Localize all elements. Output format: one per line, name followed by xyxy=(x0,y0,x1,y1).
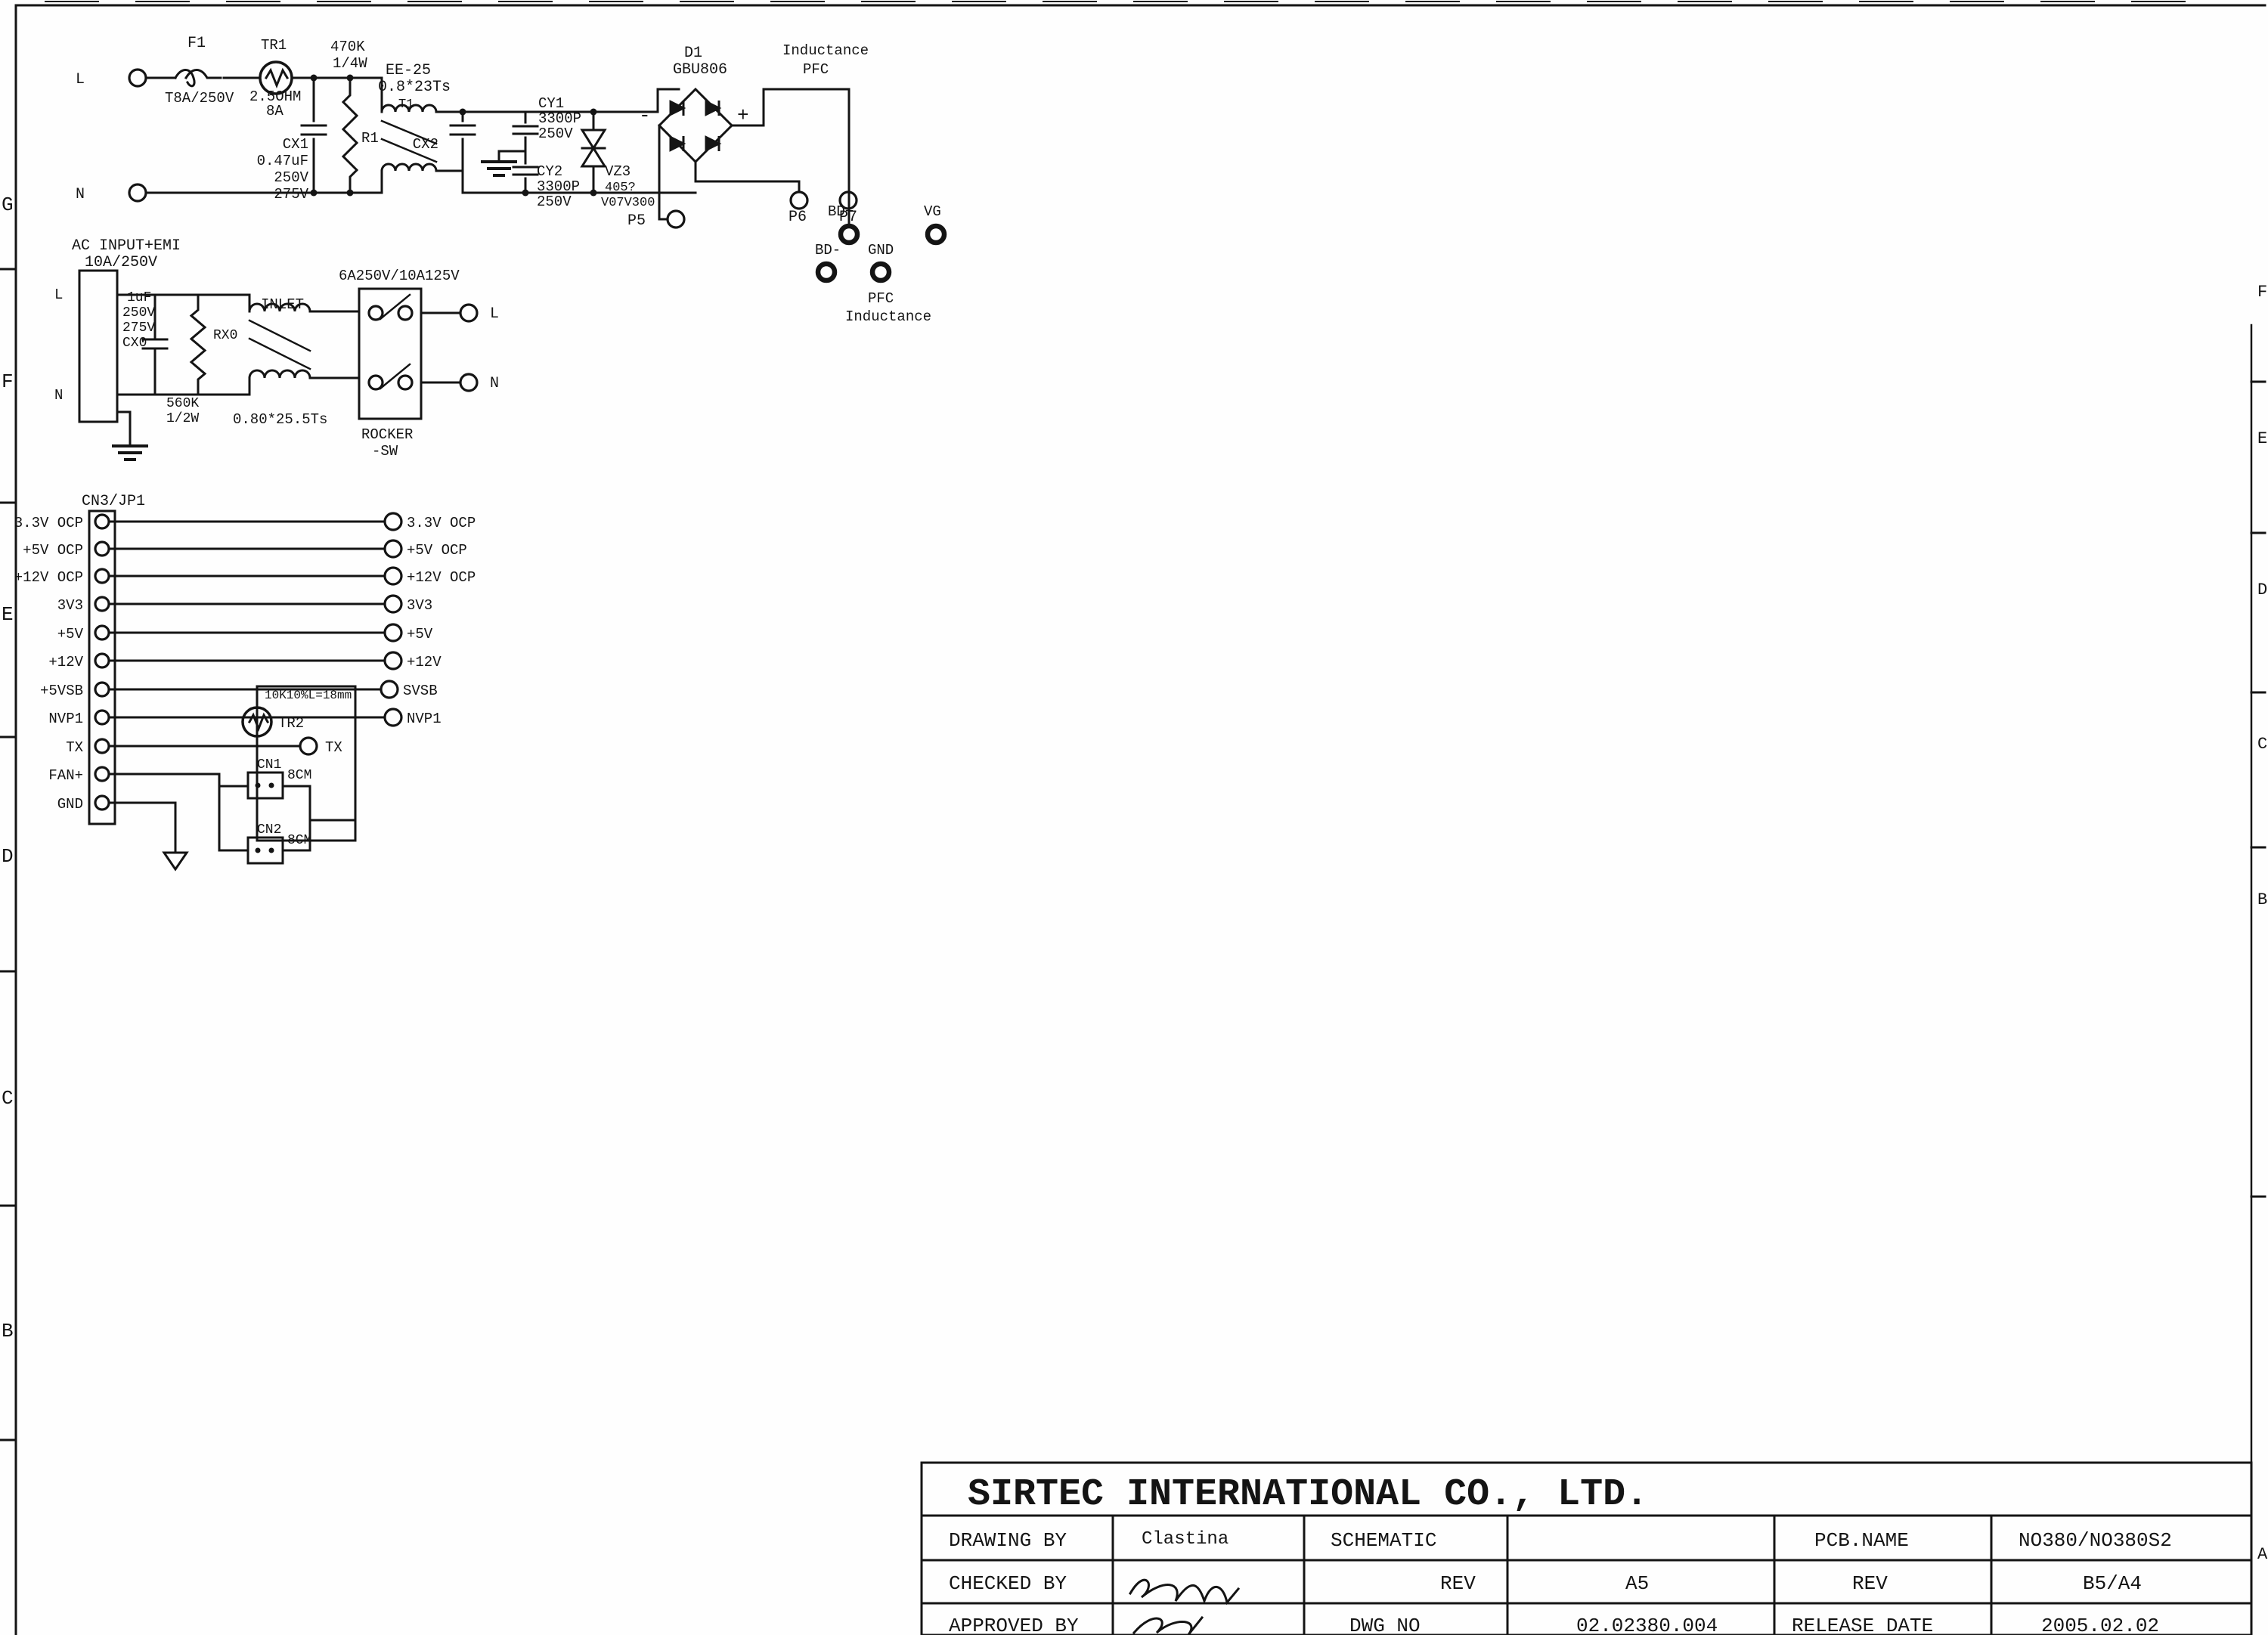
svg-text:APPROVED BY: APPROVED BY xyxy=(949,1615,1079,1635)
junction bottom xyxy=(311,190,354,197)
pin 3V3 xyxy=(57,597,115,614)
bridge rectifier D1 GBU806 xyxy=(639,45,749,162)
label Inductance PFC xyxy=(782,42,869,78)
terminal P7 xyxy=(839,192,857,226)
svg-text:G: G xyxy=(2,194,14,216)
svg-text:L: L xyxy=(54,286,63,303)
pad BD+ xyxy=(828,203,857,243)
wire xyxy=(696,162,799,192)
svg-text:RX0: RX0 xyxy=(213,328,237,343)
wire xyxy=(148,77,175,79)
svg-text:3.3V OCP: 3.3V OCP xyxy=(14,515,83,531)
pad GND2 xyxy=(868,242,894,280)
svg-text:-: - xyxy=(639,104,651,127)
svg-text:3.3V OCP: 3.3V OCP xyxy=(407,515,476,531)
svg-text:TX: TX xyxy=(325,739,342,756)
svg-text:1uF: 1uF xyxy=(127,290,151,305)
svg-text:+12V OCP: +12V OCP xyxy=(407,569,476,586)
wire xyxy=(311,311,359,313)
svg-text:SCHEMATIC: SCHEMATIC xyxy=(1331,1529,1436,1552)
wire xyxy=(219,786,248,850)
svg-text:E: E xyxy=(2257,429,2267,448)
title row approved by xyxy=(949,1615,2159,1635)
pin +5VSB xyxy=(40,683,115,699)
svg-text:A: A xyxy=(2257,1545,2268,1564)
svg-text:E: E xyxy=(2,603,14,626)
svg-text:D1: D1 xyxy=(684,45,702,62)
resistor RX0 xyxy=(166,304,237,426)
svg-text:3300P: 3300P xyxy=(538,110,581,127)
svg-text:CHECKED BY: CHECKED BY xyxy=(949,1572,1067,1595)
wire xyxy=(732,89,849,125)
svg-text:+5VSB: +5VSB xyxy=(40,683,83,699)
svg-text:N: N xyxy=(490,375,499,392)
svg-text:NO380/NO380S2: NO380/NO380S2 xyxy=(2019,1529,2172,1552)
svg-text:8CM: 8CM xyxy=(287,833,311,848)
svg-text:C: C xyxy=(2257,735,2267,754)
connector CN2 xyxy=(248,822,311,863)
wire xyxy=(436,89,679,112)
svg-text:RELEASE DATE: RELEASE DATE xyxy=(1792,1615,1933,1635)
ground arrow CN3 xyxy=(164,853,187,869)
svg-text:D: D xyxy=(2257,581,2267,599)
ground earth CY mid xyxy=(482,151,525,175)
wire xyxy=(310,819,355,822)
svg-text:EE-25: EE-25 xyxy=(386,62,431,79)
svg-text:CY1: CY1 xyxy=(538,95,564,112)
svg-text:V07V300: V07V300 xyxy=(601,196,655,210)
svg-text:VG: VG xyxy=(924,203,941,220)
svg-text:275V: 275V xyxy=(274,186,308,203)
capacitor CX1 xyxy=(257,78,326,203)
svg-text:F: F xyxy=(2257,283,2267,302)
wire xyxy=(421,312,460,314)
svg-text:0.80*25.5Ts: 0.80*25.5Ts xyxy=(233,411,327,428)
wire xyxy=(115,803,175,853)
svg-text:250V: 250V xyxy=(122,305,155,320)
svg-text:INLET: INLET xyxy=(261,296,304,313)
wire xyxy=(421,382,460,384)
connector CN3/JP1 box xyxy=(89,511,115,824)
pin 3.3V OCP xyxy=(14,515,115,531)
svg-text:R1: R1 xyxy=(361,130,379,147)
wire xyxy=(148,171,382,193)
pin TX xyxy=(66,739,115,756)
terminal P6 xyxy=(789,192,807,226)
pin FAN+ xyxy=(48,767,115,784)
net SVSB xyxy=(115,681,438,699)
svg-text:GND: GND xyxy=(868,242,894,259)
wire xyxy=(659,125,667,219)
svg-text:DWG NO: DWG NO xyxy=(1349,1615,1421,1635)
thermistor TR2 xyxy=(243,695,304,746)
svg-text:560K: 560K xyxy=(166,396,199,411)
pin +5V OCP xyxy=(23,542,115,559)
net TX xyxy=(115,738,342,756)
terminal N out xyxy=(460,374,499,392)
left margin zone letters xyxy=(0,194,16,1440)
svg-text:Clastina: Clastina xyxy=(1142,1529,1228,1550)
svg-text:3V3: 3V3 xyxy=(407,597,432,614)
svg-text:P5: P5 xyxy=(627,212,646,230)
wire xyxy=(224,77,259,79)
pin GND xyxy=(57,796,115,813)
switch ROCKER-SW xyxy=(339,268,460,460)
svg-text:PCB.NAME: PCB.NAME xyxy=(1814,1529,1909,1552)
svg-text:L: L xyxy=(76,71,85,88)
wire xyxy=(436,170,463,172)
wire xyxy=(257,745,300,748)
wire xyxy=(848,89,850,226)
svg-text:AC INPUT+EMI: AC INPUT+EMI xyxy=(72,237,181,255)
svg-text:SIRTEC INTERNATIONAL CO., LTD.: SIRTEC INTERNATIONAL CO., LTD. xyxy=(968,1473,1648,1516)
title block frame xyxy=(922,1463,2251,1635)
title row drawing by xyxy=(949,1529,2172,1552)
capacitor CY2 xyxy=(513,151,580,210)
svg-text:275V: 275V xyxy=(122,320,155,336)
svg-text:8A: 8A xyxy=(266,103,283,119)
svg-text:SVSB: SVSB xyxy=(403,683,438,699)
svg-text:CX2: CX2 xyxy=(413,136,438,153)
pin +5V xyxy=(57,626,115,643)
svg-text:10K10%L=18mm: 10K10%L=18mm xyxy=(265,689,352,702)
wire xyxy=(311,377,359,379)
wire xyxy=(155,295,198,304)
svg-text:CN2: CN2 xyxy=(257,822,281,838)
svg-text:T1: T1 xyxy=(398,98,414,112)
svg-text:C: C xyxy=(2,1087,14,1110)
wire xyxy=(155,386,198,395)
svg-text:Inductance: Inductance xyxy=(782,42,869,59)
choke INLET xyxy=(233,296,327,428)
signature approved xyxy=(1134,1618,1202,1635)
varistor VZ3 xyxy=(582,109,655,211)
svg-text:+5V: +5V xyxy=(407,626,433,643)
right margin zone letters xyxy=(2251,283,2268,1564)
svg-text:F1: F1 xyxy=(187,35,206,52)
svg-text:250V: 250V xyxy=(274,169,308,186)
wire xyxy=(198,295,249,311)
svg-text:GND: GND xyxy=(57,796,83,813)
svg-text:3300P: 3300P xyxy=(537,178,580,195)
svg-text:TR2: TR2 xyxy=(278,715,304,732)
svg-text:1/2W: 1/2W xyxy=(166,411,199,426)
common-mode choke T1 xyxy=(378,62,451,171)
svg-text:NVP1: NVP1 xyxy=(407,711,442,727)
title row checked by xyxy=(949,1572,2142,1595)
terminal P5 xyxy=(627,211,684,230)
svg-text:VZ3: VZ3 xyxy=(605,163,631,180)
pad VG xyxy=(924,203,944,243)
net NVP1 xyxy=(115,709,442,727)
svg-text:+5V: +5V xyxy=(57,626,84,643)
svg-text:+: + xyxy=(737,104,749,127)
label AC INPUT+EMI xyxy=(72,237,181,271)
svg-text:250V: 250V xyxy=(537,194,572,210)
junction CX2 top xyxy=(460,109,466,116)
thermistor TR2 box xyxy=(257,686,355,841)
svg-text:REV: REV xyxy=(1852,1572,1888,1595)
net 3.3V OCP xyxy=(115,513,476,531)
svg-text:TX: TX xyxy=(66,739,83,756)
svg-text:FAN+: FAN+ xyxy=(48,767,83,784)
svg-text:NVP1: NVP1 xyxy=(48,711,83,727)
pad BD- xyxy=(815,242,841,280)
right margin border xyxy=(2251,325,2253,1635)
svg-text:+12V: +12V xyxy=(48,654,83,670)
svg-text:B: B xyxy=(2,1320,14,1342)
svg-text:D: D xyxy=(2,845,14,868)
svg-text:Inductance: Inductance xyxy=(845,308,931,325)
svg-text:2005.02.02: 2005.02.02 xyxy=(2041,1615,2159,1635)
svg-text:+5V OCP: +5V OCP xyxy=(407,542,467,559)
svg-text:470K: 470K xyxy=(330,39,365,55)
connector AC inlet box xyxy=(54,271,117,422)
label PFC Inductance xyxy=(845,290,931,325)
pin +12V OCP xyxy=(14,569,115,586)
net +12V xyxy=(115,652,442,670)
pin +12V xyxy=(48,654,115,670)
wire xyxy=(283,786,310,850)
signature checked xyxy=(1130,1580,1238,1602)
pin NVP1 xyxy=(48,711,115,727)
svg-text:CN3/JP1: CN3/JP1 xyxy=(82,493,145,510)
node L top xyxy=(76,70,146,88)
svg-text:T8A/250V: T8A/250V xyxy=(165,90,234,107)
svg-text:ROCKER: ROCKER xyxy=(361,426,413,443)
ground inlet xyxy=(113,412,147,460)
svg-text:3V3: 3V3 xyxy=(57,597,83,614)
svg-text:PFC: PFC xyxy=(868,290,894,307)
wire xyxy=(292,78,382,112)
svg-text:BD-: BD- xyxy=(815,242,841,259)
capacitor CX2 xyxy=(413,112,475,171)
svg-text:+12V: +12V xyxy=(407,654,442,670)
wire xyxy=(198,378,249,395)
net +5V xyxy=(115,624,433,643)
svg-text:B5/A4: B5/A4 xyxy=(2083,1572,2142,1595)
net +12V OCP xyxy=(115,568,476,586)
svg-text:CX0: CX0 xyxy=(122,336,147,351)
wire xyxy=(117,295,155,301)
terminal L out xyxy=(460,305,499,323)
svg-text:10A/250V: 10A/250V xyxy=(85,254,157,271)
svg-text:A5: A5 xyxy=(1625,1572,1649,1595)
svg-text:1/4W: 1/4W xyxy=(333,55,367,72)
net 3V3 xyxy=(115,596,432,614)
svg-text:6A250V/10A125V: 6A250V/10A125V xyxy=(339,268,460,284)
svg-text:PFC: PFC xyxy=(803,61,829,78)
svg-text:REV: REV xyxy=(1440,1572,1476,1595)
svg-text:N: N xyxy=(76,186,85,203)
node N top xyxy=(76,184,146,203)
svg-text:+12V OCP: +12V OCP xyxy=(14,569,83,586)
svg-text:CY2: CY2 xyxy=(537,163,562,180)
svg-text:0.47uF: 0.47uF xyxy=(257,153,308,169)
wire xyxy=(599,192,696,194)
svg-text:B: B xyxy=(2257,890,2267,909)
svg-text:L: L xyxy=(490,305,499,323)
svg-text:+5V OCP: +5V OCP xyxy=(23,542,83,559)
svg-text:0.8*23Ts: 0.8*23Ts xyxy=(378,79,451,96)
thermistor TR1 xyxy=(249,37,301,119)
svg-text:8CM: 8CM xyxy=(287,768,311,783)
svg-text:TR1: TR1 xyxy=(261,37,287,54)
capacitor CX0 xyxy=(122,290,167,389)
svg-text:CN1: CN1 xyxy=(257,757,281,773)
fuse F1 xyxy=(165,35,234,107)
wire xyxy=(115,774,248,786)
resistor R1 xyxy=(330,39,379,194)
net +5V OCP xyxy=(115,540,467,559)
svg-text:DRAWING BY: DRAWING BY xyxy=(949,1529,1067,1552)
svg-text:-SW: -SW xyxy=(372,443,398,460)
svg-text:250V: 250V xyxy=(538,125,573,142)
svg-text:F: F xyxy=(2,370,14,393)
wire xyxy=(117,389,155,395)
connector CN1 xyxy=(248,757,311,798)
capacitor CY1 xyxy=(499,95,581,151)
svg-text:02.02380.004: 02.02380.004 xyxy=(1576,1615,1718,1635)
svg-text:N: N xyxy=(54,387,63,404)
wire xyxy=(463,171,599,193)
svg-text:P6: P6 xyxy=(789,209,807,226)
svg-text:GBU806: GBU806 xyxy=(673,61,727,79)
junction xyxy=(311,75,354,82)
svg-text:CX1: CX1 xyxy=(283,136,308,153)
